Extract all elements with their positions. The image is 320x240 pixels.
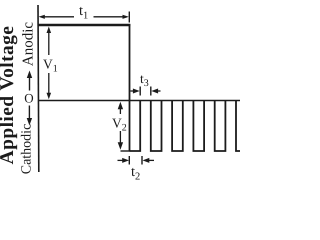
cathodic pulse 5: [215, 101, 226, 152]
cathodic pulse 4: [193, 101, 204, 152]
svg-text:Cathodic: Cathodic: [20, 124, 35, 175]
cathodic direction arrow: [27, 106, 32, 126]
cathodic pulse 2: [151, 101, 162, 152]
cathodic pulse 6 partial: [236, 101, 240, 152]
t3 dimension: [131, 87, 161, 96]
waveform anodic pulse top: [38, 24, 130, 26]
svg-text:Applied Voltage: Applied Voltage: [0, 26, 18, 165]
anodic direction arrow: [27, 71, 32, 91]
cathodic pulse 1: [130, 101, 141, 152]
vertical axis: [37, 5, 40, 172]
waveform falling edge: [129, 24, 131, 151]
V1 dimension line: [47, 27, 52, 100]
t2 dimension: [118, 156, 155, 165]
cathodic pulse 3: [172, 101, 183, 152]
zero line: [38, 100, 240, 102]
V2 dimension line: [118, 102, 123, 150]
svg-text:Anodic: Anodic: [21, 22, 37, 67]
V2 bottom tick: [121, 150, 130, 152]
svg-text:O: O: [24, 91, 33, 106]
t1 dimension line: [39, 12, 130, 23]
